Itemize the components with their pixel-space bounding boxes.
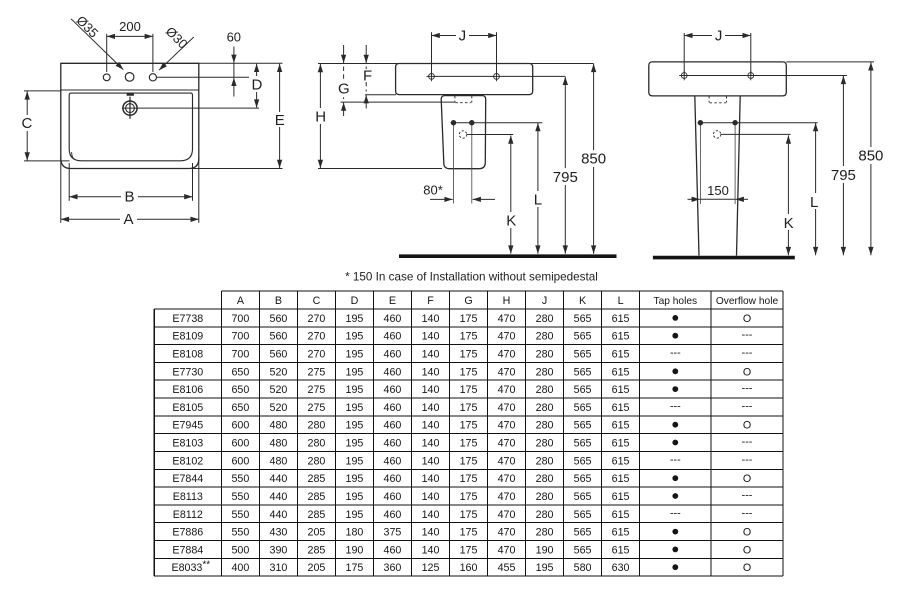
svg-text:615: 615: [612, 331, 630, 343]
svg-text:---: ---: [742, 347, 753, 359]
front view: overflow vertical centerline: [129, 97, 131, 119]
svg-text:190: 190: [536, 544, 554, 556]
svg-text:175: 175: [460, 509, 478, 521]
svg-text:850: 850: [581, 150, 606, 167]
svg-text:440: 440: [270, 473, 288, 485]
front view: shelf line: [61, 89, 199, 91]
svg-text:O: O: [743, 420, 751, 432]
dimension B (bowl width): [68, 163, 70, 201]
svg-text:565: 565: [574, 420, 592, 432]
svg-text:440: 440: [270, 491, 288, 503]
right view: fixing bolt centerline (L extension): [698, 122, 818, 124]
svg-text:F: F: [427, 295, 434, 307]
svg-text:H: H: [315, 108, 326, 125]
svg-text:285: 285: [308, 491, 326, 503]
svg-text:460: 460: [384, 509, 402, 521]
svg-text:375: 375: [384, 527, 402, 539]
svg-text:615: 615: [612, 420, 630, 432]
svg-text:195: 195: [346, 455, 364, 467]
svg-text:175: 175: [460, 455, 478, 467]
svg-text:E7886: E7886: [172, 527, 203, 539]
svg-text:E8113: E8113: [173, 491, 203, 503]
svg-text:195: 195: [346, 509, 364, 521]
svg-text:565: 565: [574, 544, 592, 556]
svg-text:175: 175: [460, 544, 478, 556]
svg-text:280: 280: [536, 455, 554, 467]
svg-text:280: 280: [536, 384, 554, 396]
middle view: tap hole centerline through crosses: [427, 75, 566, 77]
front view: overflow hole outer circle: [123, 101, 137, 115]
svg-text:615: 615: [612, 491, 630, 503]
svg-text:---: ---: [742, 436, 753, 448]
svg-text:565: 565: [574, 366, 592, 378]
svg-text:E8033**: E8033**: [171, 560, 210, 575]
svg-text:700: 700: [231, 331, 249, 343]
svg-text:700: 700: [231, 313, 249, 325]
svg-text:E8103: E8103: [172, 438, 203, 450]
front view: left tap hole: [103, 74, 110, 81]
middle view: basin side profile: [396, 64, 533, 95]
svg-text:180: 180: [346, 527, 364, 539]
svg-text:140: 140: [422, 349, 440, 361]
svg-text:---: ---: [742, 489, 753, 501]
svg-text:195: 195: [346, 366, 364, 378]
svg-text:E8112: E8112: [173, 509, 203, 521]
right view: left fixing bolt dot: [698, 120, 703, 125]
svg-text:460: 460: [384, 313, 402, 325]
svg-text:E7730: E7730: [172, 366, 203, 378]
svg-text:440: 440: [270, 509, 288, 521]
svg-text:565: 565: [574, 473, 592, 485]
table grid: [154, 291, 783, 576]
svg-text:550: 550: [231, 509, 249, 521]
middle view: dimension H (top to semipedestal bottom): [319, 64, 321, 110]
svg-text:---: ---: [670, 454, 681, 466]
right view: right tap cross: [748, 73, 754, 79]
svg-text:600: 600: [231, 420, 249, 432]
svg-text:140: 140: [422, 473, 440, 485]
svg-text:O: O: [743, 473, 751, 485]
svg-text:A: A: [123, 211, 133, 228]
svg-text:140: 140: [422, 527, 440, 539]
svg-text:280: 280: [536, 509, 554, 521]
svg-text:175: 175: [460, 527, 478, 539]
svg-text:175: 175: [460, 438, 478, 450]
svg-text:470: 470: [498, 455, 516, 467]
svg-text:700: 700: [231, 349, 249, 361]
svg-text:G: G: [338, 81, 350, 98]
middle view: siphon centerline (K extension): [467, 134, 513, 136]
svg-text:C: C: [21, 115, 32, 132]
svg-text:470: 470: [498, 366, 516, 378]
svg-text:565: 565: [574, 455, 592, 467]
svg-text:460: 460: [384, 420, 402, 432]
table row E7884: [172, 544, 751, 556]
svg-text:Tap holes: Tap holes: [653, 296, 697, 307]
right view: dimension 795 line: [842, 76, 844, 255]
svg-text:850: 850: [858, 147, 883, 164]
svg-text:195: 195: [536, 562, 554, 574]
svg-text:140: 140: [422, 384, 440, 396]
svg-text:460: 460: [384, 473, 402, 485]
svg-text:565: 565: [574, 313, 592, 325]
svg-text:565: 565: [574, 384, 592, 396]
front view: right tap hole: [149, 74, 156, 81]
svg-text:175: 175: [460, 491, 478, 503]
svg-text:565: 565: [574, 527, 592, 539]
table row E8108: [172, 347, 752, 361]
svg-text:280: 280: [536, 527, 554, 539]
svg-text:140: 140: [422, 366, 440, 378]
svg-text:280: 280: [536, 491, 554, 503]
svg-text:H: H: [503, 295, 511, 307]
svg-text:470: 470: [498, 313, 516, 325]
svg-text:195: 195: [346, 473, 364, 485]
svg-text:480: 480: [270, 455, 288, 467]
svg-text:460: 460: [384, 402, 402, 414]
svg-text:615: 615: [612, 313, 630, 325]
dimension 200 (tap hole spacing): [106, 34, 108, 72]
middle view: dimension K line: [510, 136, 512, 254]
svg-text:* 150 In case of Installation: * 150 In case of Installation without se…: [345, 271, 598, 284]
middle view: left fixing bolt dot: [451, 120, 456, 125]
dimension A (basin width): [60, 157, 62, 223]
svg-text:460: 460: [384, 349, 402, 361]
svg-text:280: 280: [536, 366, 554, 378]
svg-text:470: 470: [498, 491, 516, 503]
svg-text:470: 470: [498, 509, 516, 521]
svg-text:470: 470: [498, 473, 516, 485]
svg-text:140: 140: [422, 544, 440, 556]
middle view: drain hidden outline (dashed): [454, 96, 456, 102]
svg-text:J: J: [715, 27, 723, 44]
svg-text:430: 430: [270, 527, 288, 539]
svg-text:280: 280: [536, 473, 554, 485]
table row E8113: [173, 489, 753, 503]
middle view: semipedestal outline: [441, 96, 486, 169]
svg-text:285: 285: [308, 473, 326, 485]
svg-text:615: 615: [612, 527, 630, 539]
svg-text:E8102: E8102: [172, 455, 203, 467]
svg-text:140: 140: [422, 455, 440, 467]
middle view: fixing bolt extension lines: [453, 125, 455, 204]
svg-text:O: O: [743, 562, 751, 574]
svg-text:615: 615: [612, 509, 630, 521]
svg-text:B: B: [124, 189, 134, 206]
svg-text:280: 280: [536, 313, 554, 325]
middle view: top reference line: [318, 63, 594, 65]
svg-text:Ø35: Ø35: [73, 13, 101, 41]
svg-text:A: A: [237, 295, 245, 307]
svg-text:270: 270: [308, 313, 326, 325]
svg-text:470: 470: [498, 402, 516, 414]
svg-text:175: 175: [460, 313, 478, 325]
svg-text:565: 565: [574, 509, 592, 521]
svg-text:280: 280: [308, 438, 326, 450]
svg-text:280: 280: [308, 455, 326, 467]
svg-text:615: 615: [612, 384, 630, 396]
table row E8112: [173, 507, 753, 521]
svg-text:60: 60: [227, 30, 241, 45]
svg-text:600: 600: [231, 455, 249, 467]
right view: pedestal right edge: [737, 96, 741, 256]
svg-text:L: L: [810, 194, 818, 211]
svg-text:615: 615: [612, 349, 630, 361]
svg-text:C: C: [313, 295, 321, 307]
middle view: left tap cross: [429, 74, 435, 80]
right view: dimension L line: [815, 123, 817, 255]
svg-text:795: 795: [831, 167, 856, 184]
svg-text:615: 615: [612, 544, 630, 556]
svg-text:O: O: [743, 527, 751, 539]
svg-text:140: 140: [422, 313, 440, 325]
svg-text:615: 615: [612, 366, 630, 378]
middle view: dimension F (basin body height): [365, 45, 367, 63]
svg-text:520: 520: [270, 402, 288, 414]
svg-text:285: 285: [308, 544, 326, 556]
front view: basin outer outline: [61, 63, 199, 168]
right view: top edge extension line: [786, 61, 874, 63]
right view: basin side profile: [649, 62, 787, 96]
svg-text:650: 650: [231, 366, 249, 378]
middle view: J dimension: [431, 32, 433, 76]
front view: tap hole centerline extension: [157, 76, 253, 78]
svg-text:310: 310: [270, 562, 288, 574]
svg-text:F: F: [363, 67, 372, 84]
svg-text:175: 175: [346, 562, 364, 574]
table row E8102: [172, 454, 752, 468]
svg-text:205: 205: [308, 527, 326, 539]
middle view: right fixing bolt dot: [470, 120, 475, 125]
svg-text:560: 560: [270, 349, 288, 361]
svg-text:---: ---: [742, 507, 753, 519]
svg-text:650: 650: [231, 402, 249, 414]
svg-text:280: 280: [536, 349, 554, 361]
svg-text:565: 565: [574, 331, 592, 343]
svg-text:470: 470: [498, 438, 516, 450]
svg-text:565: 565: [574, 491, 592, 503]
svg-text:615: 615: [612, 473, 630, 485]
middle view: siphon hole (dashed circle): [459, 131, 466, 138]
svg-text:280: 280: [308, 420, 326, 432]
svg-text:Overflow hole: Overflow hole: [716, 296, 779, 307]
svg-text:615: 615: [612, 438, 630, 450]
svg-text:460: 460: [384, 331, 402, 343]
table row E8105: [172, 400, 752, 414]
svg-text:460: 460: [384, 455, 402, 467]
svg-text:560: 560: [270, 331, 288, 343]
svg-text:460: 460: [384, 544, 402, 556]
svg-text:455: 455: [498, 562, 516, 574]
svg-text:565: 565: [574, 349, 592, 361]
front view: overflow horizontal centerline (D extension): [122, 107, 259, 109]
right view: tap hole centerline through crosses: [679, 75, 847, 77]
svg-text:J: J: [459, 27, 467, 44]
svg-text:E7884: E7884: [172, 544, 203, 556]
table header row: [237, 295, 779, 307]
svg-text:195: 195: [346, 402, 364, 414]
svg-text:580: 580: [574, 562, 592, 574]
table row E8109: [172, 329, 752, 343]
svg-text:470: 470: [498, 527, 516, 539]
svg-text:195: 195: [346, 331, 364, 343]
svg-text:460: 460: [384, 384, 402, 396]
right view: pedestal left edge: [695, 96, 699, 256]
svg-text:---: ---: [670, 507, 681, 519]
svg-text:275: 275: [308, 402, 326, 414]
svg-text:550: 550: [231, 491, 249, 503]
right view: siphon hole (dashed circle): [713, 131, 720, 138]
svg-text:D: D: [251, 77, 262, 94]
front view: middle tap hole: [125, 73, 134, 82]
svg-text:140: 140: [422, 331, 440, 343]
middle view: dimension L line: [537, 123, 539, 254]
dimension C (shelf to bowl bottom): [24, 90, 61, 92]
svg-text:175: 175: [460, 473, 478, 485]
middle view: right tap cross: [494, 74, 500, 80]
svg-text:195: 195: [346, 491, 364, 503]
svg-text:470: 470: [498, 420, 516, 432]
right view: dimension K line: [787, 135, 789, 255]
svg-text:285: 285: [308, 509, 326, 521]
right view: ground line: [653, 256, 795, 260]
label Ø30 with leader arrow to right tap hole: [159, 37, 194, 70]
svg-text:280: 280: [536, 438, 554, 450]
dimension E (basin total height): [100, 168, 283, 170]
front view: top edge extension line: [199, 62, 283, 64]
table row E7844: [172, 473, 751, 485]
right view: drain hidden outline (dashed): [708, 96, 710, 103]
svg-text:K: K: [784, 215, 794, 232]
svg-text:470: 470: [498, 331, 516, 343]
svg-text:270: 270: [308, 349, 326, 361]
svg-text:E: E: [389, 295, 396, 307]
svg-text:---: ---: [742, 383, 753, 395]
svg-text:K: K: [579, 295, 587, 307]
svg-text:390: 390: [270, 544, 288, 556]
svg-text:140: 140: [422, 438, 440, 450]
svg-text:E8109: E8109: [172, 331, 203, 343]
table row E8106: [172, 383, 752, 397]
svg-text:550: 550: [231, 527, 249, 539]
svg-text:160: 160: [460, 562, 478, 574]
svg-text:---: ---: [742, 329, 753, 341]
right view: right fixing bolt dot: [733, 120, 738, 125]
svg-text:195: 195: [346, 384, 364, 396]
svg-text:L: L: [534, 191, 542, 208]
svg-text:---: ---: [670, 400, 681, 412]
svg-text:175: 175: [460, 331, 478, 343]
svg-text:K: K: [506, 212, 516, 229]
svg-text:O: O: [743, 544, 751, 556]
svg-text:E8105: E8105: [172, 402, 203, 414]
svg-text:G: G: [464, 295, 472, 307]
svg-text:195: 195: [346, 420, 364, 432]
svg-text:B: B: [275, 295, 282, 307]
middle view: dimension 795 line: [564, 77, 566, 254]
svg-text:---: ---: [742, 400, 753, 412]
svg-text:460: 460: [384, 491, 402, 503]
middle view: dimension G (top to fixing recess): [343, 45, 345, 63]
svg-text:270: 270: [308, 331, 326, 343]
svg-text:140: 140: [422, 402, 440, 414]
svg-text:650: 650: [231, 384, 249, 396]
svg-text:280: 280: [536, 420, 554, 432]
svg-text:O: O: [743, 313, 751, 325]
svg-text:---: ---: [670, 347, 681, 359]
svg-text:600: 600: [231, 438, 249, 450]
svg-text:D: D: [351, 295, 359, 307]
svg-text:615: 615: [612, 402, 630, 414]
svg-text:205: 205: [308, 562, 326, 574]
svg-text:175: 175: [460, 402, 478, 414]
right view: J dimension: [683, 33, 685, 75]
svg-text:275: 275: [308, 366, 326, 378]
svg-text:360: 360: [384, 562, 402, 574]
svg-text:Ø30: Ø30: [163, 24, 191, 52]
svg-text:520: 520: [270, 384, 288, 396]
svg-text:195: 195: [346, 313, 364, 325]
svg-text:630: 630: [612, 562, 630, 574]
middle view: fixing bolt centerline (L extension): [451, 122, 543, 124]
svg-text:480: 480: [270, 438, 288, 450]
front view: inner bowl outline: [69, 93, 192, 161]
svg-text:E8108: E8108: [172, 349, 203, 361]
svg-text:565: 565: [574, 438, 592, 450]
svg-text:480: 480: [270, 420, 288, 432]
front view: overflow hole inner circle: [126, 104, 135, 113]
label Ø35 with leader arrow to middle tap hole: [71, 19, 123, 70]
svg-text:140: 140: [422, 420, 440, 432]
svg-text:L: L: [618, 295, 624, 307]
svg-text:175: 175: [460, 366, 478, 378]
svg-text:150: 150: [707, 183, 729, 198]
svg-text:E8106: E8106: [172, 384, 203, 396]
svg-text:E: E: [275, 112, 285, 129]
right view: left tap cross: [681, 73, 687, 79]
svg-text:195: 195: [346, 349, 364, 361]
svg-text:470: 470: [498, 349, 516, 361]
svg-text:125: 125: [422, 562, 440, 574]
svg-text:140: 140: [422, 491, 440, 503]
svg-text:520: 520: [270, 366, 288, 378]
svg-text:E7945: E7945: [172, 420, 203, 432]
svg-text:280: 280: [536, 331, 554, 343]
svg-text:460: 460: [384, 366, 402, 378]
table row E7886: [172, 527, 751, 539]
svg-text:190: 190: [346, 544, 364, 556]
table row E8103: [172, 436, 752, 450]
svg-text:195: 195: [346, 438, 364, 450]
front view: overflow top bold tick: [127, 93, 134, 96]
svg-text:E7844: E7844: [172, 473, 203, 485]
table row E8033: [171, 560, 751, 575]
svg-text:J: J: [542, 295, 547, 307]
svg-text:175: 175: [460, 384, 478, 396]
front view: bowl inner bottom contour: [72, 152, 75, 159]
svg-text:615: 615: [612, 455, 630, 467]
right view: siphon centerline (K extension): [721, 133, 791, 135]
svg-text:O: O: [743, 366, 751, 378]
table row E7730: [172, 366, 751, 378]
svg-text:795: 795: [553, 169, 578, 186]
right view: fixing bolt extension lines: [699, 125, 701, 205]
svg-text:175: 175: [460, 420, 478, 432]
table row E7945: [172, 420, 751, 432]
right view: dimension 850 line: [870, 62, 872, 255]
svg-text:460: 460: [384, 438, 402, 450]
svg-text:---: ---: [742, 454, 753, 466]
